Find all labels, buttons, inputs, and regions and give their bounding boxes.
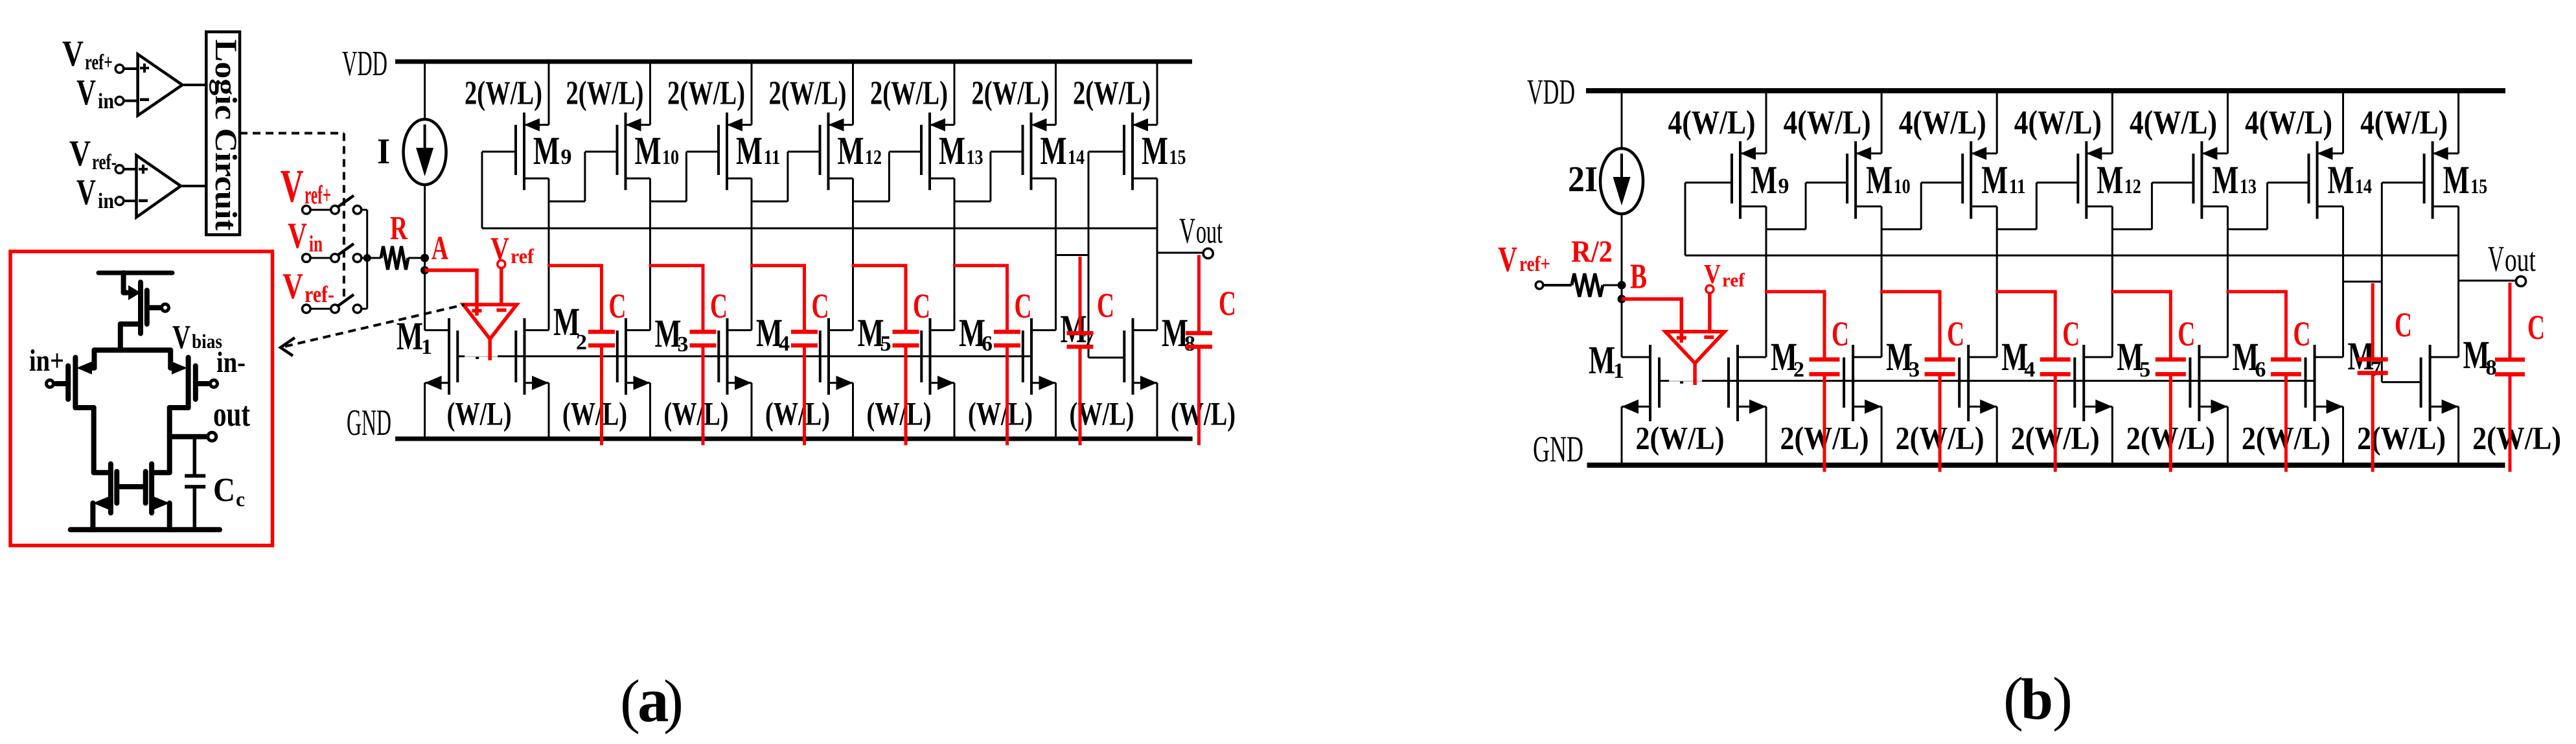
svg-text:M: M <box>1589 339 1615 382</box>
wire Vin to U2- <box>115 197 136 205</box>
svg-text:V: V <box>281 160 304 212</box>
svg-text:): ) <box>663 668 684 735</box>
svg-text:V: V <box>62 34 84 74</box>
wire node A to op-amp + <box>425 270 477 305</box>
transistor M14b <box>2309 91 2343 219</box>
svg-text:M: M <box>2328 159 2354 202</box>
svg-text:3: 3 <box>1909 358 1920 382</box>
size label 2(W/L) M9 <box>465 75 542 112</box>
VDD rail (b) <box>1586 88 2505 93</box>
label M4 (bottom, b) <box>2001 336 2035 382</box>
switch Vref+ <box>303 196 367 214</box>
svg-text:10: 10 <box>662 145 679 169</box>
svg-text:M: M <box>1142 130 1168 173</box>
transistor M6b <box>2190 345 2227 465</box>
label M9 (top, b) <box>1751 159 1789 202</box>
label M1 (a) <box>397 315 432 359</box>
label M15 (top, a) <box>1142 130 1186 173</box>
svg-text:C: C <box>2395 305 2412 344</box>
svg-text:M: M <box>736 130 763 173</box>
wire gate M9 down <box>482 152 516 228</box>
transistor in+ PMOS (detail) <box>47 350 95 472</box>
VDD label (a) <box>342 43 387 83</box>
wire drain column M15/M8 <box>1156 178 1158 330</box>
transistor M5b <box>2075 345 2112 465</box>
label M12 (top, a) <box>838 130 882 173</box>
size label 2(W/L) M13 <box>870 75 948 112</box>
label Vref- (red, switch) <box>282 266 334 307</box>
svg-text:R/2: R/2 <box>1571 235 1613 269</box>
wire drain column M14/M7 <box>2342 207 2344 358</box>
wire drain column M12/M5 <box>852 178 854 330</box>
current source I (a) <box>404 62 446 258</box>
size label 2(W/L) M15 <box>1073 75 1151 112</box>
label M6 (bottom, b) <box>2232 336 2266 382</box>
transistor M2 <box>516 318 549 439</box>
label C (a M7) <box>1097 286 1114 325</box>
VDD label (b) <box>1527 72 1575 111</box>
size label 2(W/L) M11 <box>667 75 745 112</box>
label M13 (top, b) <box>2212 159 2257 202</box>
svg-text:VDD: VDD <box>342 43 387 83</box>
Vout label (a) <box>1179 211 1223 251</box>
svg-text:Logic Circuit: Logic Circuit <box>209 40 243 231</box>
svg-text:(W/L): (W/L) <box>447 397 512 433</box>
svg-text:5: 5 <box>2139 358 2150 382</box>
svg-text:2(W/L): 2(W/L) <box>566 75 644 112</box>
svg-text:(W/L): (W/L) <box>867 397 932 433</box>
size label 2(W/L) M14 <box>972 75 1050 112</box>
svg-text:V: V <box>1179 211 1195 251</box>
label Vin (comparator 1) <box>76 73 114 113</box>
svg-text:2(W/L): 2(W/L) <box>1073 75 1151 112</box>
VDD rail (a) <box>395 60 1192 64</box>
label C (b M6) <box>2293 314 2310 353</box>
svg-text:5: 5 <box>880 332 891 356</box>
caption (b) <box>2003 666 2073 732</box>
svg-text:C: C <box>2178 314 2195 353</box>
wire Vref- to U2+ <box>115 165 136 174</box>
svg-text:C: C <box>1097 286 1114 325</box>
wire gate bus (faint) <box>1669 380 1702 382</box>
wire switch bus <box>366 210 368 309</box>
transistor in- PMOS (detail) <box>170 350 218 472</box>
GND label (b) <box>1533 429 1583 470</box>
svg-text:2(W/L): 2(W/L) <box>1636 420 1725 456</box>
transistor M3 <box>617 318 650 439</box>
size label 2(W/L) bottom 4 <box>2011 420 2100 456</box>
label A <box>431 230 448 267</box>
transistor mirror NMOS left (detail) <box>93 464 117 530</box>
svg-text:4(W/L): 4(W/L) <box>2360 104 2448 141</box>
transistor M7 <box>1023 318 1056 439</box>
rail top (detail) <box>98 271 172 275</box>
svg-text:2(W/L): 2(W/L) <box>2357 420 2446 456</box>
node B <box>1618 281 1626 358</box>
svg-text:15: 15 <box>1169 145 1186 169</box>
svg-text:V: V <box>1704 260 1721 290</box>
capacitor C (M7 stage b) <box>2358 283 2388 472</box>
comparator U1 <box>138 54 183 116</box>
capacitor C (M5 stage a) <box>852 266 919 445</box>
wire tail node (detail) <box>95 347 171 353</box>
GND label (a) <box>347 402 391 443</box>
svg-text:2(W/L): 2(W/L) <box>769 75 847 112</box>
size label 2(W/L) M12 <box>769 75 847 112</box>
svg-text:C: C <box>213 472 235 509</box>
svg-text:in: in <box>98 189 114 213</box>
wire drain column M9/M2 <box>548 178 550 330</box>
svg-text:M: M <box>397 315 423 358</box>
transistor M13 <box>921 62 954 190</box>
svg-text:C: C <box>1219 284 1236 323</box>
capacitor C (M4 stage b) <box>1995 292 2071 472</box>
wire dashed control (logic to switches) <box>240 134 344 299</box>
svg-text:C: C <box>609 286 627 325</box>
label Vref+ (comparator) <box>62 34 113 75</box>
wire drain column M15/M8 <box>2457 207 2459 358</box>
resistor R/2 <box>1572 273 1618 297</box>
size label (W/L) bottom 2 <box>562 397 627 433</box>
svg-text:V: V <box>1498 239 1517 279</box>
svg-text:M: M <box>1981 159 2008 202</box>
op-amp Ub <box>1665 332 1724 385</box>
svg-text:4(W/L): 4(W/L) <box>1899 104 1986 141</box>
size label (W/L) bottom m1 <box>447 397 512 433</box>
label in- <box>216 345 246 378</box>
transistor M9b <box>1732 91 1766 219</box>
wire U2 out <box>181 185 206 187</box>
transistor M1 <box>425 318 458 439</box>
label Vin (comparator 2) <box>76 172 114 213</box>
svg-text:6: 6 <box>2255 358 2266 382</box>
svg-text:4(W/L): 4(W/L) <box>1784 104 1871 141</box>
wire gate M9 down <box>1685 183 1732 255</box>
label C (a M5) <box>913 286 930 325</box>
wire gate M15 down <box>2382 183 2424 382</box>
wire drain column M12/M5 <box>2111 207 2113 358</box>
svg-text:3: 3 <box>678 332 689 356</box>
svg-text:2(W/L): 2(W/L) <box>465 75 542 112</box>
svg-text:2(W/L): 2(W/L) <box>972 75 1050 112</box>
label C (b M7) <box>2395 305 2412 344</box>
svg-text:out: out <box>213 395 250 434</box>
size label 4(W/L) M9 <box>1668 104 1756 141</box>
wire gate M10 to drain M9 <box>549 152 617 202</box>
svg-text:(W/L): (W/L) <box>1171 397 1236 433</box>
svg-text:C: C <box>2293 314 2310 353</box>
svg-text:ref-: ref- <box>92 150 117 174</box>
size label (W/L) bottom 3 <box>664 397 729 433</box>
svg-text:V: V <box>76 73 96 113</box>
transistor M7b <box>2306 345 2343 465</box>
transistor M5 <box>820 318 853 439</box>
node switch common <box>363 254 371 262</box>
svg-text:M: M <box>2097 159 2123 202</box>
label Vref- (comparator) <box>69 134 117 174</box>
wire Vref+ to U1+ <box>115 65 137 73</box>
label B <box>1630 257 1647 296</box>
svg-text:12: 12 <box>2124 174 2141 198</box>
transistor M8b <box>2421 345 2459 465</box>
label Vref+ (b) <box>1498 239 1550 279</box>
svg-text:ref: ref <box>511 244 534 268</box>
wire gate M10 to drain M9 <box>1766 183 1847 229</box>
current source label I <box>377 132 390 172</box>
capacitor C (M4 stage a) <box>750 266 818 445</box>
label C (b M5) <box>2178 314 2195 353</box>
label M2 (bottom, b) <box>1771 336 1804 382</box>
svg-text:6: 6 <box>982 332 993 356</box>
label Vbias <box>172 319 222 356</box>
capacitor C (M7 stage a) <box>1067 257 1094 445</box>
wire gate M15 down <box>1088 152 1124 358</box>
svg-text:14: 14 <box>1068 145 1085 169</box>
label Vref+ (red, switch) <box>281 160 331 212</box>
svg-text:4: 4 <box>779 332 790 356</box>
wire Vin to U1- <box>115 97 137 105</box>
svg-text:9: 9 <box>1778 174 1789 198</box>
svg-text:4(W/L): 4(W/L) <box>1668 104 1756 141</box>
transistor M10 <box>617 62 650 190</box>
transistor M10b <box>1847 91 1881 219</box>
GND rail (a) <box>395 437 1193 441</box>
size label 4(W/L) M15 <box>2360 104 2448 141</box>
svg-text:M: M <box>2212 159 2238 202</box>
svg-text:in-: in- <box>216 345 246 378</box>
svg-text:M: M <box>1866 159 1892 202</box>
label C (a M6) <box>1015 286 1032 325</box>
svg-text:GND: GND <box>1533 429 1583 470</box>
comparator U2 <box>137 156 181 218</box>
svg-text:C: C <box>710 286 728 325</box>
svg-text:2: 2 <box>576 331 587 355</box>
resistor R <box>367 246 421 270</box>
svg-text:V: V <box>69 134 91 174</box>
transistor M12 <box>820 62 853 190</box>
switch Vin <box>303 244 367 262</box>
capacitor C (M8 stage a) <box>1186 255 1212 446</box>
size label 2(W/L) bottom 5 <box>2126 420 2215 456</box>
node out (detail) <box>170 432 216 441</box>
label R/2 <box>1571 235 1613 269</box>
transistor M1b <box>1622 345 1659 465</box>
wire drain column M11/M4 <box>751 178 753 330</box>
wire mirror gates link <box>117 484 145 489</box>
node A <box>420 254 429 331</box>
size label 2(W/L) bottom 6 <box>2242 420 2330 456</box>
svg-text:C: C <box>2062 314 2080 353</box>
node Vout (b) <box>2459 276 2526 286</box>
label M14 (top, b) <box>2328 159 2373 202</box>
svg-text:M: M <box>2443 159 2470 202</box>
wire gate bus notch <box>1680 381 1683 384</box>
label C (a M3) <box>710 286 728 325</box>
svg-text:9: 9 <box>561 145 572 169</box>
switch Vref- <box>303 294 367 312</box>
wire drain column M10/M3 <box>649 178 651 330</box>
wire drain column M13/M6 <box>2227 207 2229 358</box>
wire gate bus (left) <box>1659 380 1669 382</box>
label M14 (top, a) <box>1041 130 1085 173</box>
svg-text:(W/L): (W/L) <box>968 397 1033 433</box>
svg-text:4(W/L): 4(W/L) <box>2014 104 2102 141</box>
capacitor C (M6 stage a) <box>953 266 1020 445</box>
svg-text:GND: GND <box>347 402 391 443</box>
label M12 (top, b) <box>2097 159 2141 202</box>
svg-text:): ) <box>2053 666 2073 732</box>
svg-text:V: V <box>288 216 307 256</box>
transistor M4 <box>719 318 752 439</box>
svg-text:R: R <box>390 210 408 247</box>
svg-text:b: b <box>2021 668 2053 732</box>
label Vref (b) <box>1704 260 1745 291</box>
wire drain column M13/M6 <box>954 178 956 330</box>
wire dashed pointer to op-amp detail <box>281 305 465 356</box>
Vout label (b) <box>2488 239 2536 279</box>
svg-text:A: A <box>431 230 448 267</box>
svg-text:M: M <box>1041 130 1067 173</box>
transistor bias PMOS (detail) <box>121 273 169 350</box>
svg-text:M: M <box>939 130 965 173</box>
svg-text:2: 2 <box>1793 358 1804 382</box>
size label 4(W/L) M14 <box>2245 104 2332 141</box>
svg-text:C: C <box>913 286 930 325</box>
label in+ <box>29 343 64 378</box>
transistor M13b <box>2193 91 2227 219</box>
transistor M15b <box>2424 91 2459 219</box>
wire gate M12 to drain M11 <box>1997 183 2078 229</box>
label Vin (red, switch) <box>288 216 323 257</box>
svg-text:V: V <box>76 172 96 213</box>
svg-text:c: c <box>236 487 245 511</box>
wire gate M14 to drain M13 <box>2227 183 2308 229</box>
svg-text:13: 13 <box>967 145 983 169</box>
label M8 (bottom, a) <box>1162 312 1195 356</box>
svg-text:14: 14 <box>2355 174 2372 198</box>
svg-text:(W/L): (W/L) <box>562 397 627 433</box>
capacitor C (M3 stage b) <box>1880 292 1955 472</box>
wire U1 out <box>182 84 206 86</box>
op-amp Ua <box>463 305 517 360</box>
size label (W/L) bottom 6 <box>968 397 1033 433</box>
transistor M8 <box>1124 318 1157 439</box>
label out <box>213 395 250 434</box>
wire gate bus notch <box>476 357 479 360</box>
svg-text:(W/L): (W/L) <box>664 397 729 433</box>
label M7 (bottom, a) <box>1061 308 1094 352</box>
capacitor C (M2 stage b) <box>1765 292 1840 472</box>
size label (W/L) bottom 4 <box>765 397 830 433</box>
svg-text:12: 12 <box>865 145 882 169</box>
label C (b M3) <box>1947 314 1964 353</box>
wire feedback line (M9 gate to Vout node) <box>482 227 1157 229</box>
svg-text:out: out <box>1196 214 1223 251</box>
label M5 (bottom, b) <box>2117 336 2150 382</box>
size label 2(W/L) bottom 2 <box>1780 420 1869 456</box>
size label 2(W/L) M10 <box>566 75 644 112</box>
svg-text:1: 1 <box>1613 359 1624 383</box>
svg-text:I: I <box>377 132 390 172</box>
svg-text:2(W/L): 2(W/L) <box>2472 420 2561 456</box>
size label (W/L) bottom 7 <box>1070 397 1134 433</box>
label C (a M8) <box>1219 284 1236 323</box>
wire gate M13 to drain M12 <box>853 152 922 202</box>
wire M8 gate lead <box>1088 356 1124 358</box>
transistor mirror NMOS right (detail) <box>146 464 170 530</box>
svg-text:2(W/L): 2(W/L) <box>870 75 948 112</box>
svg-text:8: 8 <box>1184 332 1195 356</box>
svg-text:4(W/L): 4(W/L) <box>2245 104 2332 141</box>
transistor M6 <box>921 318 954 439</box>
svg-text:13: 13 <box>2240 174 2257 198</box>
label M3 (bottom, a) <box>655 312 689 356</box>
svg-text:M: M <box>635 130 661 173</box>
wire gate bus (right) <box>498 355 1031 357</box>
capacitor C (M8 stage b) <box>2495 283 2525 472</box>
svg-text:11: 11 <box>764 145 781 169</box>
node Vref (b) <box>1706 285 1714 332</box>
label M10 (top, b) <box>1866 159 1911 202</box>
svg-text:M: M <box>533 130 560 173</box>
GND rail (b) <box>1587 463 2505 468</box>
svg-text:V: V <box>172 319 190 356</box>
capacitor C (M5 stage b) <box>2111 292 2186 472</box>
label C (a M2) <box>609 286 627 325</box>
size label (W/L) bottom 8 <box>1171 397 1236 433</box>
wire drain column M10/M3 <box>1881 207 1883 358</box>
transistor M11b <box>1962 91 1997 219</box>
wire gate bus (left) <box>457 355 465 357</box>
label C (b M2) <box>1832 314 1849 353</box>
svg-text:VDD: VDD <box>1527 72 1575 111</box>
wire gate M14 to drain M13 <box>954 152 1023 202</box>
transistor M12b <box>2078 91 2112 219</box>
transistor M4b <box>1959 345 1997 465</box>
wire M14 drain to M15 gate node <box>2343 281 2382 283</box>
transistor M2b <box>1729 345 1766 465</box>
svg-text:M: M <box>838 130 864 173</box>
label M5 (bottom, a) <box>858 312 891 356</box>
wire gate bus (right) <box>1702 380 2314 382</box>
label C (a M4) <box>812 286 829 325</box>
label R <box>390 210 408 247</box>
wire gate M11 to drain M10 <box>650 152 719 202</box>
transistor M3b <box>1844 345 1881 465</box>
label C (b M4) <box>2062 314 2080 353</box>
svg-text:in: in <box>309 231 323 257</box>
size label 2(W/L) bottom 7 <box>2357 420 2446 456</box>
size label (W/L) bottom 5 <box>867 397 932 433</box>
svg-text:10: 10 <box>1894 174 1911 198</box>
label M2 (bottom, a) <box>553 301 587 355</box>
svg-text:in+: in+ <box>29 343 64 378</box>
size label 2(W/L) bottom m1 <box>1636 420 1725 456</box>
svg-text:ref+: ref+ <box>1519 253 1550 276</box>
svg-text:C: C <box>1947 314 1964 353</box>
label M6 (bottom, a) <box>959 312 993 356</box>
wire node B to op-amp + <box>1622 299 1681 331</box>
current source 2I (b) <box>1600 91 1643 285</box>
size label 4(W/L) M13 <box>2130 104 2217 141</box>
logic circuit block <box>206 32 243 235</box>
svg-text:1: 1 <box>421 335 432 359</box>
wire gate M12 to drain M11 <box>752 152 820 202</box>
transistor M15 <box>1124 62 1157 190</box>
svg-text:C: C <box>2527 308 2545 347</box>
label M4 (bottom, a) <box>756 312 790 356</box>
size label 4(W/L) M11 <box>1899 104 1986 141</box>
